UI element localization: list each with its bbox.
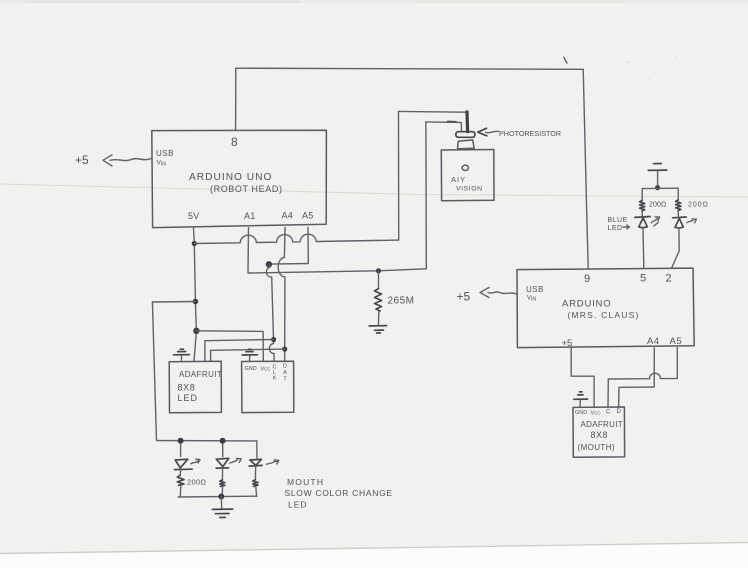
ground above left matrix bbox=[174, 349, 190, 361]
svg-text:A4: A4 bbox=[647, 336, 660, 347]
svg-text:200Ω: 200Ω bbox=[688, 202, 709, 209]
node LED branch junction bbox=[193, 299, 199, 305]
wire 5V down from arduino bbox=[194, 228, 197, 331]
pin A5 bottom label bbox=[670, 336, 683, 347]
LED D3 bbox=[249, 459, 279, 466]
resistor R200b bbox=[220, 468, 225, 496]
photoresistor label bbox=[499, 129, 561, 138]
node rail junction 2 bbox=[220, 438, 226, 444]
svg-text:2: 2 bbox=[666, 273, 672, 285]
ground below mouth LEDs bbox=[212, 497, 232, 518]
wire A4 down with big hop bbox=[278, 228, 285, 362]
wire divider up-leg bbox=[425, 122, 427, 269]
svg-text:GND: GND bbox=[575, 410, 587, 416]
svg-text:PHOTORESISTOR: PHOTORESISTOR bbox=[499, 129, 561, 138]
photoresistor body bbox=[458, 140, 475, 149]
svg-text:9: 9 bbox=[584, 273, 590, 285]
svg-text:(MRS. CLAUS): (MRS. CLAUS) bbox=[568, 310, 640, 320]
svg-text:+5: +5 bbox=[562, 338, 573, 349]
svg-text:A5: A5 bbox=[670, 336, 683, 347]
arduino U2 box bbox=[517, 268, 694, 348]
svg-text:+5: +5 bbox=[457, 290, 471, 304]
svg-text:200Ω: 200Ω bbox=[187, 478, 206, 487]
paper bottom edge line bbox=[0, 543, 748, 554]
wire top rail to right bbox=[236, 68, 583, 69]
+5 label left bbox=[75, 153, 89, 167]
svg-text:VISION: VISION bbox=[456, 186, 483, 193]
pin 8 label bbox=[231, 135, 238, 149]
svg-text:A5: A5 bbox=[302, 211, 313, 221]
node divider junction bbox=[376, 268, 381, 273]
ground top right bbox=[648, 164, 667, 188]
resistor R200c bbox=[253, 466, 258, 497]
photoresistor top lead (thick) bbox=[465, 112, 469, 132]
svg-text:ADAFRUIT: ADAFRUIT bbox=[179, 370, 222, 379]
AIY labels bbox=[451, 175, 483, 193]
USB Vin label bbox=[156, 149, 174, 168]
value 265M bbox=[388, 296, 415, 307]
svg-text:VIN: VIN bbox=[157, 160, 167, 168]
value 200 ohm d bbox=[649, 202, 666, 209]
blue LED label bbox=[608, 217, 630, 232]
wire D5 to pin 2 bbox=[672, 228, 680, 268]
wire 5V rail with hops over A1 A4 A5 bbox=[194, 234, 398, 243]
wire A5 down left down (CLK) bbox=[269, 227, 308, 264]
svg-text:K: K bbox=[273, 376, 277, 382]
USB Vin label right bbox=[526, 285, 544, 303]
wire A4 to mouth D bbox=[619, 348, 655, 408]
mouth pin labels bbox=[575, 409, 622, 417]
svg-text:ADAFRUIT: ADAFRUIT bbox=[581, 420, 623, 429]
svg-text:MOUTH: MOUTH bbox=[287, 477, 324, 487]
LED D1 bbox=[174, 459, 200, 470]
wire A5 to mouth C with hop bbox=[608, 348, 677, 408]
scanner white strip below paper edge bbox=[0, 543, 748, 568]
wire DAT chain to left matrix bbox=[211, 349, 285, 361]
pen tick bbox=[564, 57, 567, 63]
wire down to pin 9 bbox=[583, 69, 588, 268]
ground above mouth matrix bbox=[574, 392, 588, 407]
svg-text:+5: +5 bbox=[75, 153, 89, 167]
svg-text:(ROBOT HEAD): (ROBOT HEAD) bbox=[210, 184, 283, 194]
arduino U1 box bbox=[152, 130, 327, 227]
left matrix labels bbox=[178, 370, 223, 403]
pin 9 label bbox=[584, 273, 590, 285]
wire 5V rail up-leg to photoresistor bbox=[398, 111, 400, 240]
faint specks top right bbox=[627, 61, 629, 63]
pin A4 label bbox=[282, 211, 293, 221]
svg-text:C: C bbox=[606, 410, 611, 416]
svg-text:LED: LED bbox=[178, 393, 199, 403]
node Vcc branch junction bbox=[193, 328, 199, 334]
node bottom rail junction bbox=[218, 494, 224, 500]
resistor R200e bbox=[676, 188, 681, 216]
arrow to photoresistor bbox=[478, 128, 499, 136]
squiggle arrow to +5 (right) bbox=[480, 288, 517, 298]
svg-text:BLUE: BLUE bbox=[608, 217, 628, 224]
mouth LED rail drops bbox=[181, 441, 257, 459]
svg-text:5: 5 bbox=[640, 273, 646, 285]
LED D5 bbox=[673, 217, 697, 228]
svg-text:VIN: VIN bbox=[527, 296, 536, 303]
adafruit 8x8 LED box bbox=[169, 361, 221, 413]
squiggle arrow to +5 (left) bbox=[103, 155, 151, 166]
pin A5 label bbox=[302, 211, 313, 221]
LED D4 blue bbox=[635, 217, 660, 228]
wire +5 to mouth Vcc bbox=[571, 348, 594, 407]
resistor R265 bbox=[375, 271, 382, 325]
svg-text:USB: USB bbox=[156, 149, 174, 158]
mouth matrix labels bbox=[578, 420, 623, 452]
svg-text:D: D bbox=[617, 409, 622, 415]
resistor R200a bbox=[177, 470, 184, 497]
resistor R200d bbox=[640, 189, 645, 216]
svg-text:8X8: 8X8 bbox=[591, 430, 609, 440]
pin A1 label bbox=[244, 211, 255, 221]
adafruit mouth box bbox=[573, 407, 625, 457]
value 200 ohm e bbox=[688, 202, 709, 209]
Arduino Uno title bbox=[189, 172, 283, 194]
svg-text:D: D bbox=[283, 364, 287, 370]
svg-text:A1: A1 bbox=[244, 211, 255, 221]
wire branch to mouth LEDs bbox=[152, 302, 256, 441]
svg-text:200Ω: 200Ω bbox=[649, 202, 666, 209]
ground below R265 bbox=[369, 326, 386, 333]
value 200 ohm bbox=[187, 478, 206, 487]
svg-text:265M: 265M bbox=[388, 296, 415, 307]
wire 5V to driver Vcc bbox=[196, 331, 263, 362]
wire to photoresistor lower lead bbox=[426, 122, 462, 132]
driver pin labels bbox=[245, 364, 288, 383]
svg-text:USB: USB bbox=[526, 285, 544, 294]
svg-text:A: A bbox=[283, 370, 287, 376]
svg-text:GND: GND bbox=[245, 366, 257, 372]
node A5 elbow junction bbox=[266, 261, 272, 267]
node DAT junction bbox=[282, 347, 287, 352]
wire 5V into left matrix bbox=[194, 331, 196, 362]
paper crease line bbox=[0, 184, 748, 197]
svg-text:(MOUTH): (MOUTH) bbox=[578, 443, 615, 452]
Arduino title right bbox=[562, 299, 640, 321]
svg-text:LED: LED bbox=[288, 500, 308, 510]
pin 2 label bbox=[666, 273, 672, 285]
photoresistor cap bbox=[456, 132, 475, 138]
svg-text:8: 8 bbox=[231, 135, 238, 149]
wire CLK chain to left matrix bbox=[205, 340, 274, 362]
svg-text:SLOW COLOR CHANGE: SLOW COLOR CHANGE bbox=[285, 488, 393, 498]
node CLK junction bbox=[271, 337, 276, 342]
wire A1 down and right to divider bbox=[248, 228, 426, 273]
wire ground rail bbox=[642, 187, 678, 189]
node rail junction 1 bbox=[178, 438, 184, 444]
svg-text:ARDUINO UNO: ARDUINO UNO bbox=[189, 172, 272, 183]
svg-text:AIY: AIY bbox=[451, 175, 466, 184]
node 5V rail junction bbox=[192, 241, 197, 246]
mouth LED caption bbox=[285, 477, 393, 510]
+5 label right bbox=[457, 290, 471, 304]
pin 5V label bbox=[188, 211, 199, 221]
svg-text:ARDUINO: ARDUINO bbox=[562, 299, 611, 310]
node ground junction bbox=[655, 185, 660, 190]
driver box bbox=[242, 361, 294, 412]
scan top edge smudge bbox=[0, 0, 748, 3]
wire bottom rail bbox=[178, 495, 257, 498]
svg-text:5V: 5V bbox=[188, 211, 199, 221]
ground above driver box bbox=[242, 349, 257, 361]
svg-text:LED: LED bbox=[608, 225, 623, 232]
pin +5 bottom label bbox=[562, 338, 573, 349]
svg-text:A4: A4 bbox=[282, 211, 293, 221]
wire CLK down with hops bbox=[266, 264, 274, 361]
AIY camera circle bbox=[462, 165, 468, 170]
pin 5 label bbox=[640, 273, 646, 285]
AIY vision box bbox=[441, 150, 494, 201]
wire to photoresistor top bbox=[399, 110, 467, 113]
wire D4 to pin 5 bbox=[642, 228, 645, 269]
svg-text:8X8: 8X8 bbox=[178, 383, 196, 393]
pin A4 bottom label bbox=[647, 336, 660, 347]
wire pin8 up bbox=[235, 68, 237, 130]
LED D2 bbox=[216, 458, 241, 468]
